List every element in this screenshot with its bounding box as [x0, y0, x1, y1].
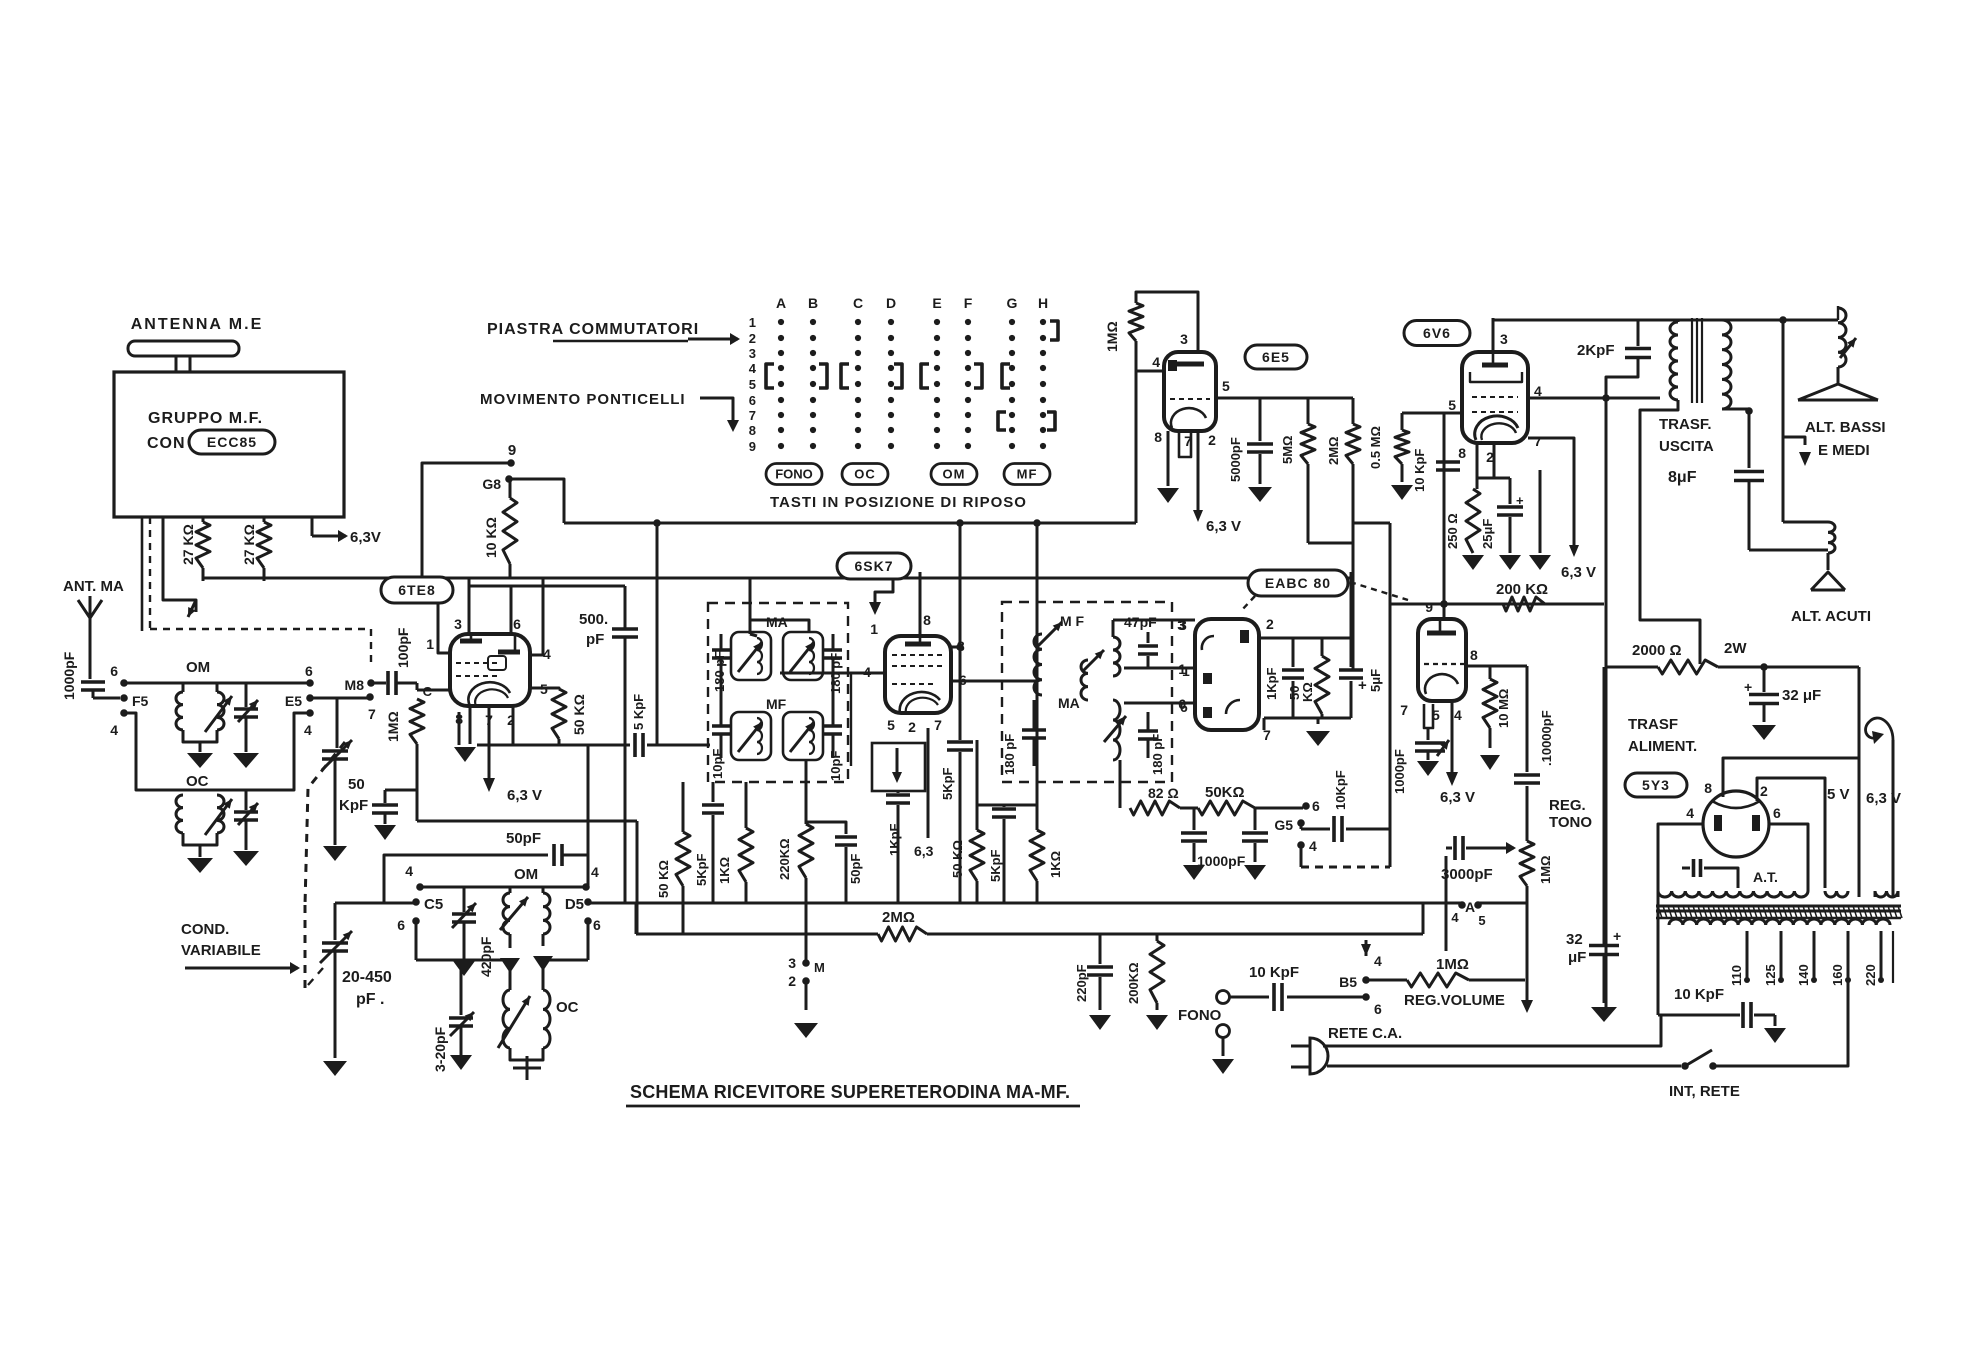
- resistor 1K IF1: [745, 782, 748, 828]
- pin 4 wire from IF1: [780, 672, 885, 675]
- svg-text:5Y3: 5Y3: [1642, 777, 1670, 793]
- svg-text:1: 1: [426, 636, 434, 652]
- svg-text:KpF: KpF: [339, 797, 368, 814]
- block GRUPPO M.F. CON ECC85: [114, 372, 344, 517]
- varcap mark under triode: [1437, 740, 1449, 756]
- svg-text:8: 8: [1470, 647, 1478, 663]
- heater 6,3 wire: [927, 728, 930, 838]
- svg-text:4: 4: [1686, 805, 1694, 821]
- 6SK7 cathode arc: [900, 692, 940, 713]
- capacitor 5KpF series: [633, 733, 637, 757]
- ground arrow OM coil: [187, 753, 213, 768]
- svg-text:8: 8: [923, 612, 931, 628]
- 6SK7 grid dashes: [892, 654, 946, 656]
- svg-text:10pF: 10pF: [828, 751, 843, 781]
- node D5: [584, 898, 592, 906]
- capacitor 32uF second: [1603, 667, 1606, 945]
- IF2 180pF cap: [1022, 728, 1046, 732]
- svg-text:+: +: [1744, 679, 1752, 695]
- resistor 50K det: [1321, 638, 1324, 656]
- svg-text:ECC85: ECC85: [207, 434, 257, 450]
- wire IF1 bottoms to decoupling: [712, 782, 715, 802]
- svg-text:6E5: 6E5: [1262, 349, 1290, 365]
- woofer cone: [1837, 367, 1840, 383]
- svg-text:1MΩ: 1MΩ: [1538, 856, 1553, 884]
- svg-text:8: 8: [749, 423, 756, 438]
- svg-text:180 pF: 180 pF: [1150, 734, 1165, 775]
- svg-text:4: 4: [405, 863, 413, 879]
- svg-text:1MΩ: 1MΩ: [1104, 321, 1120, 352]
- svg-text:6SK7: 6SK7: [854, 558, 893, 574]
- svg-text:1KpF: 1KpF: [887, 823, 902, 856]
- svg-text:OC: OC: [556, 999, 579, 1016]
- capacitor 25uF cathode: [1477, 477, 1510, 480]
- svg-text:MF: MF: [766, 696, 787, 712]
- IF2 dashed box: [1002, 602, 1172, 782]
- svg-text:6,3: 6,3: [914, 843, 934, 859]
- triode grid dash: [1424, 663, 1466, 665]
- IF2 MA coil: [1081, 660, 1088, 700]
- IF2 secondary coil upper: [1113, 637, 1120, 676]
- wire rail1 left segment: [335, 902, 416, 905]
- heater 6,3V 6E5: [1197, 431, 1200, 510]
- wire 4-4 lower loop: [124, 713, 310, 790]
- wire pin5 plate out: [1216, 397, 1353, 400]
- svg-text:6: 6: [1374, 1001, 1382, 1017]
- wire from node 9 down to bus: [422, 463, 511, 578]
- 6V6 beam plates: [1470, 372, 1522, 382]
- pin 1 riser: [438, 602, 450, 653]
- heater 6,3V arrow pin4: [1451, 701, 1454, 772]
- svg-text:10pF: 10pF: [710, 749, 725, 779]
- pin4 wire: [1528, 397, 1660, 400]
- svg-text:32: 32: [1566, 931, 1583, 948]
- tube 5Y3 rectifier: [1703, 791, 1769, 857]
- dashed gang coupling line: [305, 742, 345, 905]
- mains wires: [1323, 1015, 1661, 1046]
- svg-text:2: 2: [1266, 616, 1274, 632]
- 6TE8 cathode arc: [468, 682, 510, 706]
- svg-text:C5: C5: [424, 896, 443, 913]
- svg-text:GRUPPO M.F.: GRUPPO M.F.: [148, 410, 263, 427]
- svg-text:50 KΩ: 50 KΩ: [950, 840, 965, 878]
- triode cathode arc: [1425, 674, 1458, 694]
- 6TE8 internal plate bars: [460, 639, 482, 644]
- svg-text:5: 5: [749, 377, 756, 392]
- svg-text:10KpF: 10KpF: [1333, 770, 1348, 810]
- transformer AT winding: [1658, 891, 1808, 897]
- wire E5 to 7 node: [310, 697, 372, 700]
- IF1 MF secondary coil unit: [783, 712, 823, 760]
- svg-text:VARIABILE: VARIABILE: [181, 942, 261, 959]
- svg-text:420pF: 420pF: [478, 936, 494, 977]
- svg-text:3000pF: 3000pF: [1441, 866, 1493, 883]
- node A 4 5: [1458, 901, 1466, 909]
- wire 6.3V tap from box: [311, 517, 314, 536]
- svg-text:6: 6: [1312, 798, 1320, 814]
- 6TE8 internal grid dashes: [456, 662, 500, 664]
- svg-text:10 KpF: 10 KpF: [1249, 964, 1299, 981]
- arrow movimento: [700, 398, 733, 420]
- svg-text:32 μF: 32 μF: [1782, 687, 1821, 704]
- wire bus under MF box to IF area: [203, 577, 1352, 580]
- node 6 (D5 row): [584, 917, 592, 925]
- svg-text:5KpF: 5KpF: [988, 849, 1003, 882]
- svg-text:6: 6: [305, 663, 313, 679]
- antenna MA symbol: [89, 618, 92, 643]
- svg-text:REG.: REG.: [1549, 797, 1586, 814]
- svg-text:A: A: [776, 295, 786, 311]
- transformer core bars: [1656, 905, 1901, 908]
- coil OM oscillator pair: [509, 887, 512, 893]
- svg-text:USCITA: USCITA: [1659, 438, 1714, 455]
- ground arrow OM trimmer: [233, 753, 259, 768]
- grid hook arrow: [875, 579, 893, 602]
- long wire y523 to 6E5 grid resistor: [564, 522, 1136, 525]
- tube 6E5: [1164, 352, 1216, 431]
- svg-text:3: 3: [1177, 617, 1185, 633]
- wire IF2 bottom to 82 ohm: [1119, 760, 1122, 808]
- svg-text:27 KΩ: 27 KΩ: [241, 524, 257, 565]
- arrow piastra: [688, 338, 726, 341]
- svg-text:1KΩ: 1KΩ: [717, 857, 732, 884]
- pin 3 riser: [468, 578, 471, 634]
- svg-text:ALT. ACUTI: ALT. ACUTI: [1791, 608, 1871, 625]
- svg-text:50 KΩ: 50 KΩ: [656, 860, 671, 898]
- svg-text:2: 2: [1208, 432, 1216, 448]
- capacitor 5KpF AGC2: [1003, 805, 1006, 807]
- trimmer capacitor OC: [245, 790, 248, 810]
- node 4 (E5 row): [306, 709, 314, 717]
- resistor 10K: [509, 479, 512, 498]
- pin7 heater 6V6: [1528, 438, 1574, 545]
- svg-text:4: 4: [749, 361, 757, 376]
- resistor 50K cathode: [530, 688, 559, 689]
- resistor 1K IF2 cathode: [1036, 681, 1039, 830]
- resistor 1M 6E5 grid: [1129, 303, 1143, 341]
- pin 9 riser: [1443, 604, 1446, 619]
- svg-text:+: +: [1613, 928, 1621, 944]
- svg-text:H: H: [1038, 295, 1048, 311]
- svg-text:MF: MF: [1017, 467, 1038, 482]
- svg-text:7: 7: [1534, 433, 1542, 449]
- capacitor 50pF (osc): [552, 844, 556, 866]
- svg-text:6: 6: [513, 616, 521, 632]
- capacitor 220pF output: [1099, 934, 1102, 964]
- svg-text:6: 6: [749, 393, 756, 408]
- svg-text:5 KpF: 5 KpF: [631, 694, 646, 730]
- svg-text:A.T.: A.T.: [1753, 869, 1778, 885]
- svg-text:5MΩ: 5MΩ: [1280, 436, 1295, 464]
- svg-text:ANTENNA M.E: ANTENNA M.E: [131, 316, 264, 333]
- IF1 MF primary coil unit: [731, 712, 771, 760]
- output transformer secondary coil: [1722, 320, 1731, 409]
- HT return hook: [1858, 667, 1861, 897]
- svg-text:2: 2: [908, 719, 916, 735]
- svg-text:7: 7: [749, 408, 756, 423]
- 6SK7 cathode network box: [872, 743, 925, 791]
- potentiometer 1M volume: [1366, 979, 1407, 982]
- 6V6 plate bar: [1482, 363, 1508, 368]
- node G8: [505, 475, 513, 483]
- svg-text:REG.VOLUME: REG.VOLUME: [1404, 992, 1505, 1009]
- dashed wire from MF box to M8 node: [149, 517, 151, 629]
- svg-text:160: 160: [1830, 964, 1845, 986]
- svg-text:INT, RETE: INT, RETE: [1669, 1083, 1740, 1100]
- node 6 (F5 row): [120, 679, 128, 687]
- svg-text:250 Ω: 250 Ω: [1445, 513, 1460, 549]
- svg-text:5: 5: [1478, 913, 1485, 928]
- cathode resistor 250: [1476, 443, 1479, 489]
- top rail y320: [1493, 319, 1783, 322]
- svg-text:6: 6: [593, 917, 601, 933]
- svg-text:47pF: 47pF: [1124, 614, 1157, 630]
- svg-text:5KpF: 5KpF: [694, 853, 709, 886]
- wire IF1 MA top link: [751, 620, 809, 632]
- svg-text:500.: 500.: [579, 611, 608, 628]
- svg-text:6,3 V: 6,3 V: [1206, 518, 1241, 535]
- wire secondary bottom: [1722, 408, 1749, 411]
- ground arrow OC coil: [187, 858, 213, 873]
- svg-text:A: A: [1465, 899, 1475, 915]
- tap arrow E MEDI: [1782, 320, 1785, 522]
- primary taps: [1746, 931, 1749, 978]
- svg-text:M: M: [814, 960, 825, 975]
- svg-text:7: 7: [368, 706, 376, 722]
- svg-text:6: 6: [110, 663, 118, 679]
- wire IF1 feeds: [720, 680, 723, 712]
- tube 6TE8: [450, 634, 530, 706]
- svg-text:20-450: 20-450: [342, 969, 392, 986]
- svg-text:50: 50: [348, 776, 365, 793]
- svg-text:OM: OM: [514, 866, 538, 883]
- wire 6E5 plate loop: [1136, 292, 1198, 352]
- svg-text:220: 220: [1863, 964, 1878, 986]
- transformer primary winding: [1669, 919, 1890, 925]
- svg-text:27 KΩ: 27 KΩ: [180, 524, 196, 565]
- 6V6 cathode arc: [1475, 416, 1518, 440]
- svg-text:E: E: [932, 295, 941, 311]
- wire rail1 y903: [588, 902, 1462, 905]
- button FONO: [766, 464, 822, 485]
- wire pin8 rail: [1466, 665, 1527, 668]
- svg-text:2MΩ: 2MΩ: [882, 909, 915, 926]
- junction dot top speaker: [1779, 316, 1787, 324]
- svg-text:SCHEMA RICEVITORE SUPERETERODI: SCHEMA RICEVITORE SUPERETERODINA MA-MF.: [630, 1082, 1070, 1102]
- svg-text:1: 1: [870, 621, 878, 637]
- svg-text:6: 6: [1178, 696, 1186, 712]
- node 9: [507, 459, 515, 467]
- antenna MF dipole symbol: [128, 341, 239, 356]
- svg-text:4: 4: [1454, 707, 1462, 723]
- svg-text:6: 6: [1773, 805, 1781, 821]
- svg-text:D5: D5: [565, 896, 584, 913]
- pin 2 lead: [512, 706, 515, 745]
- wire 50pF branch from rail to C5: [384, 855, 548, 903]
- svg-text:8: 8: [1154, 429, 1162, 445]
- svg-text:E5: E5: [285, 693, 302, 709]
- node 6 phono: [1362, 993, 1370, 1001]
- svg-text:6TE8: 6TE8: [398, 582, 435, 598]
- button MF: [1004, 464, 1050, 485]
- ground hook under box: [163, 517, 196, 612]
- wire 200K to triode grid: [1390, 603, 1604, 606]
- phono ground jack: [1217, 1025, 1230, 1038]
- svg-text:1000pF: 1000pF: [1197, 853, 1246, 869]
- svg-text:+: +: [1516, 493, 1524, 508]
- IF2 MF coil: [1034, 634, 1042, 695]
- svg-text:10 KpF: 10 KpF: [1674, 986, 1724, 1003]
- pointer from oval to tube: [1240, 596, 1255, 612]
- svg-text:5: 5: [1222, 378, 1230, 394]
- tweeter voice coil: [1783, 521, 1828, 524]
- matrix contact dots: [778, 319, 784, 325]
- svg-text:3: 3: [788, 955, 796, 971]
- pin 3 wire to plate supply: [951, 646, 960, 649]
- AVC wire to grid leak: [416, 790, 419, 821]
- wire 1M to pin4: [1136, 370, 1164, 373]
- pin 8 ground: [1167, 431, 1170, 486]
- tube oval label 5Y3: [1625, 773, 1687, 797]
- pin7 lead: [1179, 431, 1191, 457]
- capacitor 1KpF det: [1292, 638, 1295, 667]
- svg-text:110: 110: [1729, 965, 1744, 986]
- svg-text:D: D: [886, 295, 896, 311]
- wire y523 right segment: [1353, 522, 1390, 525]
- HT center tap cap: [1704, 868, 1738, 888]
- 5Y3 filament wires: [1723, 758, 1859, 797]
- capacitor 32uF first: [1763, 667, 1766, 692]
- pin 8 riser: [919, 572, 922, 636]
- svg-text:RETE C.A.: RETE C.A.: [1328, 1025, 1402, 1042]
- resistor 27K (second): [263, 517, 266, 522]
- dashed link oval to triode: [1350, 582, 1408, 600]
- wire D5 riser: [587, 745, 590, 887]
- svg-text:5 V: 5 V: [1827, 786, 1850, 803]
- svg-text:6V6: 6V6: [1423, 325, 1451, 341]
- trimmer 3-20pF: [460, 960, 463, 1015]
- matrix brackets: [766, 364, 774, 388]
- svg-text:ANT. MA: ANT. MA: [63, 578, 124, 595]
- capacitor 1000pF det filter (left): [1193, 808, 1196, 830]
- svg-text:MOVIMENTO PONTICELLI: MOVIMENTO PONTICELLI: [480, 391, 686, 408]
- svg-text:MA: MA: [1058, 695, 1080, 711]
- svg-text:F: F: [964, 295, 973, 311]
- svg-text:3: 3: [454, 616, 462, 632]
- resistor 220K: [799, 824, 813, 878]
- svg-text:EABC 80: EABC 80: [1265, 575, 1331, 591]
- wire pin2 top rail: [1259, 637, 1351, 640]
- svg-text:7: 7: [1400, 702, 1408, 718]
- svg-text:.10000pF: .10000pF: [1539, 710, 1554, 766]
- wire AGC row: [977, 804, 1037, 807]
- resistor 1M grid: [410, 699, 424, 744]
- svg-text:200KΩ: 200KΩ: [1126, 962, 1141, 1004]
- svg-text:E MEDI: E MEDI: [1818, 442, 1870, 459]
- svg-text:25μF: 25μF: [1480, 519, 1495, 549]
- IF2 180pF lower cap: [1138, 729, 1158, 733]
- svg-text:5: 5: [1448, 397, 1456, 413]
- svg-text:μF: μF: [1568, 949, 1586, 966]
- svg-text:OM: OM: [943, 467, 966, 482]
- svg-text:4: 4: [110, 722, 118, 738]
- 6E5 plate bar: [1174, 362, 1204, 367]
- EABC80 det bottom rail + ground: [1264, 717, 1351, 720]
- svg-text:50pF: 50pF: [506, 830, 541, 847]
- capacitor 50KpF to ground: [416, 744, 419, 790]
- wire y745 row: [477, 744, 630, 747]
- svg-text:B5: B5: [1339, 974, 1357, 990]
- pin3 riser: [1492, 318, 1495, 352]
- svg-text:C: C: [853, 295, 863, 311]
- svg-text:100pF: 100pF: [395, 627, 411, 668]
- svg-text:9: 9: [749, 439, 756, 454]
- svg-text:TONO: TONO: [1549, 814, 1592, 831]
- node 4 (C5 row): [416, 883, 424, 891]
- svg-text:2: 2: [788, 973, 796, 989]
- node 6 G5 4 block: [1302, 802, 1310, 810]
- mains plug: [1310, 1038, 1328, 1074]
- resistor 0.5M grid 6V6: [1401, 413, 1404, 430]
- woofer voice coil: [1783, 319, 1838, 322]
- svg-text:6,3 V: 6,3 V: [1866, 790, 1901, 807]
- svg-text:COND.: COND.: [181, 921, 229, 938]
- dashed 4 link: [1300, 845, 1303, 867]
- 6E5 target dot: [1168, 360, 1177, 371]
- button OC: [842, 464, 888, 485]
- svg-text:FONO: FONO: [1178, 1007, 1222, 1024]
- node F5: [120, 694, 128, 702]
- svg-text:1MΩ: 1MΩ: [385, 711, 401, 742]
- svg-text:0.5 MΩ: 0.5 MΩ: [1368, 426, 1383, 469]
- svg-text:4: 4: [304, 722, 312, 738]
- svg-text:4: 4: [1309, 838, 1317, 854]
- triode plate bar: [1427, 631, 1456, 636]
- wire IF1 secondary bottom to 220K: [805, 760, 808, 824]
- ground arrow OC trimmer: [233, 851, 259, 866]
- svg-text:220pF: 220pF: [1074, 964, 1089, 1002]
- 6V6 grid dashes: [1472, 396, 1518, 398]
- phono jack: [1217, 991, 1230, 1004]
- wire y586 short: [469, 578, 625, 586]
- resistor 200K output: [1156, 934, 1159, 941]
- resistor 27K (first): [202, 517, 205, 522]
- node E5: [306, 694, 314, 702]
- svg-text:TRASF.: TRASF.: [1659, 416, 1712, 433]
- svg-text:TRASF: TRASF: [1628, 716, 1678, 733]
- svg-text:OC: OC: [186, 773, 209, 790]
- svg-text:140: 140: [1796, 964, 1811, 986]
- wire G8 to long bus y523: [509, 479, 564, 523]
- svg-text:1KΩ: 1KΩ: [1048, 851, 1063, 878]
- svg-text:8μF: 8μF: [1668, 469, 1697, 486]
- svg-text:180 pF: 180 pF: [1002, 734, 1017, 775]
- capacitor 5uF: [1350, 572, 1353, 667]
- variable capacitor section 2 (20-450 pF main gang): [334, 903, 337, 940]
- pin2 screen ground: [1493, 443, 1496, 478]
- svg-text:10 KΩ: 10 KΩ: [483, 517, 499, 558]
- IF1 dashed box: [708, 603, 848, 782]
- svg-text:G: G: [1007, 295, 1018, 311]
- riser x1390: [1389, 523, 1392, 867]
- wire rail2 y934: [636, 933, 878, 936]
- svg-text:3: 3: [1180, 331, 1188, 347]
- ground arrow under M: [794, 1023, 818, 1038]
- svg-text:10 KpF: 10 KpF: [1412, 449, 1427, 492]
- 5Y3 anode wires: [1658, 824, 1703, 888]
- svg-text:ALT. BASSI: ALT. BASSI: [1805, 419, 1886, 436]
- wire 6V6 grid: [1402, 412, 1462, 415]
